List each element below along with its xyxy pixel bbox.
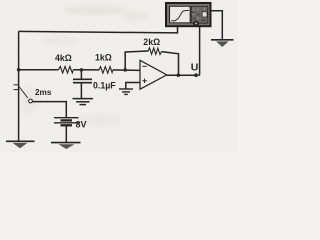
capacitor C1: [73, 70, 92, 98]
wire feedback left riser: [125, 51, 148, 70]
node capacitor tap: [80, 68, 84, 72]
op-amp U1: [140, 60, 167, 89]
resistor R2: [99, 67, 113, 74]
node input junction: [17, 68, 21, 72]
wire battery to ground: [65, 125, 67, 142]
wire row input node to R1: [19, 69, 59, 71]
wire output: [167, 74, 200, 76]
switch S1 time-delay: [14, 85, 33, 103]
wire top (input node to scope channel A): [19, 26, 178, 33]
wire R1 to capacitor tap: [73, 69, 99, 71]
resistor R3 feedback: [148, 48, 161, 55]
ground battery: [51, 143, 81, 149]
wire left vertical (top wire down to input row): [18, 31, 20, 69]
wire scope to ground: [211, 11, 223, 40]
wire non-inverting input to ground: [126, 83, 140, 89]
wire switch contact to battery: [32, 102, 66, 118]
node feedback tap: [123, 68, 127, 72]
oscilloscope XSC1: [166, 3, 211, 26]
ground capacitor: [73, 99, 94, 105]
ground left: [6, 141, 35, 148]
scan smudges: [20, 5, 149, 127]
paper background: [0, 0, 238, 152]
battery V1: [54, 118, 79, 126]
resistor R1: [59, 66, 74, 73]
wire R2 to op-amp inverting input: [113, 69, 140, 72]
node feedback to output: [177, 73, 181, 77]
ground scope: [211, 40, 234, 47]
paper grain: [0, 0, 238, 152]
wire feedback right drop: [162, 52, 179, 76]
node output U: [194, 73, 198, 77]
ground op-amp input: [119, 89, 133, 94]
wire left vertical (row down to switch): [18, 70, 20, 141]
wire output to scope channel B: [199, 26, 201, 75]
